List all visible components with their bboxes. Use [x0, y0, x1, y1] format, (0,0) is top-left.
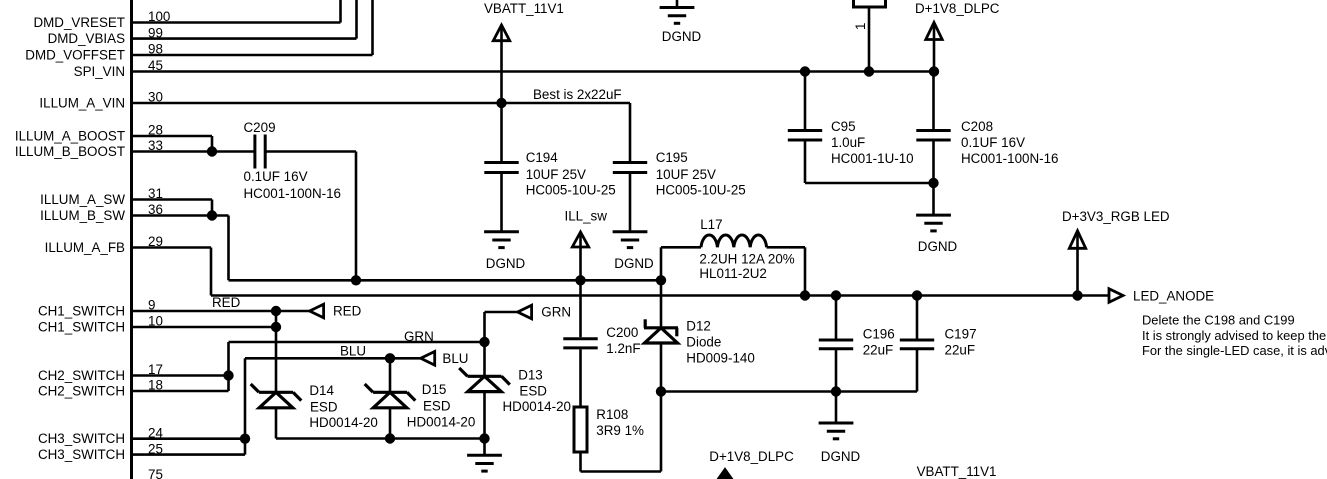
- svg-text:HC001-100N-16: HC001-100N-16: [961, 151, 1059, 166]
- pin 29 ILLUM_A_FB wire: [132, 246, 212, 249]
- svg-text:RED: RED: [333, 304, 362, 319]
- svg-text:C208: C208: [961, 119, 993, 134]
- junction pin17: [224, 371, 233, 380]
- svg-text:HD0014-20: HD0014-20: [503, 399, 571, 414]
- svg-text:10UF 25V: 10UF 25V: [656, 167, 716, 182]
- junction D+1V8_DLPC on SPI_VIN wire: [929, 67, 938, 76]
- capacitor C209: [255, 135, 265, 169]
- junction D13 bottom: [480, 434, 489, 443]
- pin 1 wire: [868, 7, 871, 72]
- wire C195 to ground: [629, 174, 632, 232]
- wire ground stem under rail: [835, 392, 838, 424]
- svg-text:HD0014-20: HD0014-20: [407, 414, 475, 429]
- power D+3V3_RGB LED stem: [1076, 233, 1079, 296]
- wire SW net horizontal: [229, 279, 662, 282]
- port LED_ANODE: [1109, 289, 1123, 303]
- pin 9 CH1_SWITCH wire: [132, 310, 310, 313]
- svg-text:2.2UH 12A 20%: 2.2UH 12A 20%: [699, 252, 794, 267]
- ground DGND top: [660, 8, 695, 24]
- svg-text:18: 18: [148, 378, 163, 393]
- svg-text:HL011-2U2: HL011-2U2: [699, 266, 767, 281]
- wire stem from top to DGND: [676, 0, 679, 8]
- svg-text:ESD: ESD: [310, 399, 338, 414]
- power D+1V8_DLPC stem: [933, 25, 936, 72]
- svg-text:C196: C196: [863, 327, 895, 342]
- svg-text:ESD: ESD: [423, 399, 451, 414]
- wire R108 bottom corner: [579, 452, 582, 472]
- svg-text:D+1V8_DLPC: D+1V8_DLPC: [709, 449, 794, 464]
- wire pin98 up exit: [371, 0, 374, 55]
- wire C208 to bottom rail: [932, 142, 935, 184]
- junction C196 top on LED_ANODE wire: [831, 291, 840, 300]
- junction C209 on SW wire: [351, 276, 360, 285]
- wire to L17 left: [661, 246, 701, 249]
- pin 25 CH3_SWITCH wire: [132, 453, 246, 456]
- svg-text:C194: C194: [526, 150, 559, 165]
- svg-text:C195: C195: [656, 150, 688, 165]
- svg-text:DGND: DGND: [821, 449, 861, 464]
- junction SW pins: [207, 211, 216, 220]
- pin 98 DMD_VOFFSET wire: [132, 54, 373, 57]
- pin 33 ILLUM_B_BOOST wire: [132, 150, 254, 153]
- pin 24 CH3_SWITCH wire: [132, 437, 246, 440]
- wire C196 bottom: [835, 350, 838, 392]
- svg-text:30: 30: [148, 90, 163, 105]
- wire VBATT down to C194: [500, 103, 503, 161]
- power ILL_sw stem: [579, 234, 582, 280]
- svg-text:D13: D13: [518, 367, 543, 382]
- capacitor C95: [788, 131, 822, 141]
- svg-text:17: 17: [148, 362, 163, 377]
- wire pin99 up exit: [355, 0, 358, 39]
- svg-text:D12: D12: [686, 319, 711, 334]
- svg-text:DGND: DGND: [918, 239, 958, 254]
- wire down to C196: [835, 296, 838, 339]
- pin 31 ILLUM_A_SW wire: [132, 198, 213, 201]
- svg-text:DMD_VBIAS: DMD_VBIAS: [48, 31, 125, 46]
- wire C95 to bottom rail: [804, 142, 807, 184]
- pin 45 SPI_VIN wire: [132, 70, 935, 73]
- svg-text:C200: C200: [606, 325, 638, 340]
- wire D15 anode down: [389, 408, 392, 439]
- wire down to C208: [932, 72, 935, 130]
- svg-text:SPI_VIN: SPI_VIN: [74, 64, 125, 79]
- wire GRN horizontal: [229, 341, 485, 344]
- svg-text:BLU: BLU: [340, 344, 366, 359]
- svg-text:R108: R108: [596, 407, 628, 422]
- pin 99 DMD_VBIAS wire: [132, 37, 357, 40]
- junction D12 anode on gnd rail: [656, 387, 665, 396]
- power D+3V3_RGB LED arrow: [1069, 231, 1085, 249]
- svg-text:Delete the C198 and C199: Delete the C198 and C199: [1142, 313, 1295, 328]
- svg-text:C95: C95: [831, 119, 856, 134]
- junction pin10: [271, 322, 280, 331]
- svg-text:Diode: Diode: [686, 334, 721, 349]
- capacitor C197: [900, 340, 934, 349]
- wire D12 cathode from SW junction: [660, 280, 663, 328]
- junction SW wire at L17/D12 column: [656, 276, 665, 285]
- svg-text:For the single-LED case, it is: For the single-LED case, it is advised t…: [1142, 343, 1327, 358]
- wire C208 bottom to ground: [932, 183, 935, 215]
- wire pin29 corner down: [210, 248, 213, 296]
- svg-text:10: 10: [148, 314, 163, 329]
- capacitor C194: [484, 163, 518, 173]
- svg-text:BLU: BLU: [442, 351, 468, 366]
- svg-text:0.1UF 16V: 0.1UF 16V: [961, 135, 1025, 150]
- wire D15 cathode from BLU wire: [389, 358, 392, 392]
- junction boost pins: [207, 147, 216, 156]
- inductor L17: [701, 235, 767, 247]
- junction C95 on SPI_VIN wire: [800, 67, 809, 76]
- pin 30 ILLUM_A_VIN wire: [132, 102, 631, 105]
- wire down to C197: [916, 296, 919, 339]
- junction D15 bottom: [385, 434, 394, 443]
- ground DGND under C196: [819, 423, 854, 439]
- junction L17 output on LED_ANODE wire: [800, 291, 809, 300]
- svg-text:10UF 25V: 10UF 25V: [526, 167, 586, 182]
- svg-text:29: 29: [148, 234, 163, 249]
- svg-text:GRN: GRN: [541, 305, 571, 320]
- ground DGND under C195: [613, 232, 648, 248]
- svg-text:CH2_SWITCH: CH2_SWITCH: [38, 383, 125, 398]
- junction pin24: [240, 434, 249, 443]
- svg-text:25: 25: [148, 441, 163, 456]
- svg-text:D14: D14: [309, 383, 334, 398]
- svg-text:ILLUM_A_SW: ILLUM_A_SW: [40, 192, 125, 207]
- svg-text:36: 36: [148, 202, 163, 217]
- svg-text:HC005-10U-25: HC005-10U-25: [656, 183, 746, 198]
- svg-text:ESD: ESD: [519, 384, 547, 399]
- svg-text:DMD_VOFFSET: DMD_VOFFSET: [25, 47, 125, 62]
- wire L17 down to LED wire: [804, 247, 807, 295]
- svg-text:98: 98: [148, 42, 163, 57]
- svg-text:VBATT_11V1: VBATT_11V1: [917, 464, 997, 479]
- svg-text:ILLUM_B_BOOST: ILLUM_B_BOOST: [15, 144, 125, 159]
- capacitor C196: [819, 340, 853, 349]
- svg-text:45: 45: [148, 58, 163, 73]
- wire GRN port stub: [485, 311, 518, 314]
- pin 100 DMD_VRESET wire: [132, 21, 341, 24]
- wire L17 right: [767, 246, 805, 249]
- svg-text:DGND: DGND: [614, 256, 654, 271]
- wire pin36 corner down to SW net: [227, 216, 230, 281]
- junction BLU wire at D15: [385, 354, 394, 363]
- svg-text:3R9 1%: 3R9 1%: [596, 423, 644, 438]
- junction rail at C196/ground: [831, 387, 840, 396]
- svg-text:HC005-10U-25: HC005-10U-25: [526, 183, 616, 198]
- svg-text:9: 9: [148, 298, 155, 313]
- wire ILL_sw column down to C200: [579, 280, 582, 337]
- svg-text:33: 33: [148, 138, 163, 153]
- svg-text:CH1_SWITCH: CH1_SWITCH: [38, 319, 125, 334]
- wire BLU horizontal: [245, 357, 421, 360]
- wire D12 anode down: [660, 343, 663, 472]
- wire pin31 to pin36 join: [211, 200, 214, 216]
- wire C197 bottom: [916, 350, 919, 392]
- wire D14 anode down: [275, 408, 278, 439]
- svg-text:HD009-140: HD009-140: [686, 350, 754, 365]
- resistor R108: [574, 407, 587, 452]
- pin 17 CH2_SWITCH wire: [132, 374, 229, 377]
- junction C197 top on LED_ANODE wire: [912, 291, 921, 300]
- svg-text:L17: L17: [700, 217, 722, 232]
- wire bottom to D12 column: [581, 470, 662, 473]
- wire BLU to pins 24/25: [244, 358, 247, 454]
- svg-text:C209: C209: [244, 120, 276, 135]
- wire D13 anode down: [483, 392, 486, 439]
- svg-text:100: 100: [148, 9, 170, 24]
- port GRN: [518, 305, 532, 319]
- diode D14 ESD: [251, 384, 302, 408]
- svg-text:D+3V3_RGB LED: D+3V3_RGB LED: [1062, 209, 1170, 224]
- svg-text:0.1UF 16V: 0.1UF 16V: [244, 169, 308, 184]
- svg-text:1.2nF: 1.2nF: [606, 341, 640, 356]
- wire ILLUM_A_VIN corner down to C195: [629, 103, 632, 161]
- junction GRN wire at D13: [480, 337, 489, 346]
- svg-text:DMD_VRESET: DMD_VRESET: [33, 15, 125, 30]
- svg-text:D+1V8_DLPC: D+1V8_DLPC: [915, 1, 1000, 16]
- svg-text:VBATT_11V1: VBATT_11V1: [484, 1, 564, 16]
- svg-text:CH3_SWITCH: CH3_SWITCH: [38, 431, 125, 446]
- svg-text:DGND: DGND: [486, 256, 526, 271]
- wire pin100 up exit: [339, 0, 342, 23]
- ground DGND under C194: [484, 232, 519, 248]
- svg-text:DGND: DGND: [662, 29, 702, 44]
- svg-text:1: 1: [853, 23, 868, 30]
- svg-text:31: 31: [148, 186, 163, 201]
- power D+1V8_DLPC arrow bottom (filled, clipped): [713, 470, 737, 479]
- power VBATT_11V1 stem: [500, 27, 503, 103]
- wire C95-C208 bottom rail: [805, 182, 934, 185]
- wire C194 to ground: [500, 174, 503, 232]
- svg-text:CH3_SWITCH: CH3_SWITCH: [38, 447, 125, 462]
- svg-text:ILLUM_A_VIN: ILLUM_A_VIN: [39, 95, 125, 110]
- diode D12: [644, 319, 678, 343]
- svg-text:LED_ANODE: LED_ANODE: [1133, 288, 1214, 303]
- svg-text:CH2_SWITCH: CH2_SWITCH: [38, 368, 125, 383]
- junction VBATT on ILLUM_A_VIN wire: [497, 98, 506, 107]
- svg-text:ILLUM_A_FB: ILLUM_A_FB: [45, 240, 125, 255]
- svg-text:24: 24: [148, 425, 163, 440]
- wire C200 to R108: [579, 349, 582, 407]
- port RED: [310, 304, 324, 318]
- wire C209 branch down to SW net: [355, 152, 358, 281]
- svg-text:Best is 2x22uF: Best is 2x22uF: [533, 87, 622, 102]
- svg-text:HC001-1U-10: HC001-1U-10: [831, 151, 914, 166]
- capacitor C208: [916, 131, 950, 141]
- wire pin28 to pin33 join: [211, 136, 214, 152]
- diode D13 ESD: [459, 368, 510, 392]
- svg-text:RED: RED: [212, 295, 241, 310]
- svg-text:HD0014-20: HD0014-20: [309, 415, 377, 430]
- junction C208 bottom: [929, 178, 938, 187]
- pin 36 ILLUM_B_SW wire: [132, 214, 229, 217]
- svg-text:C197: C197: [945, 327, 977, 342]
- svg-text:1.0uF: 1.0uF: [831, 135, 865, 150]
- diode D15 ESD: [365, 384, 416, 408]
- wire SW node up to inductor: [660, 247, 663, 281]
- component box top (partial): [854, 0, 886, 7]
- wire GRN to pins 17/18: [227, 342, 230, 391]
- power D+1V8_DLPC arrow: [926, 23, 942, 40]
- port BLU: [421, 352, 435, 366]
- junction ILL_sw on SW wire: [576, 276, 585, 285]
- wire diode bottom rail: [276, 437, 485, 440]
- wire D13 bottom to ground: [483, 439, 486, 456]
- pin 18 CH2_SWITCH wire: [132, 390, 229, 393]
- wire LED_ANODE net horizontal: [211, 294, 1109, 297]
- power VBATT_11V1 arrow: [493, 25, 509, 41]
- svg-text:ILLUM_B_SW: ILLUM_B_SW: [40, 208, 125, 223]
- ground DGND under D13: [467, 455, 502, 471]
- svg-text:ILLUM_A_BOOST: ILLUM_A_BOOST: [15, 128, 125, 143]
- wire down to C95: [804, 72, 807, 130]
- wire anode rail horizontal: [661, 390, 917, 393]
- junction D+3V3 on LED_ANODE wire: [1073, 291, 1082, 300]
- svg-text:It is strongly advised to keep: It is strongly advised to keep the C196 …: [1142, 328, 1327, 343]
- ground DGND under C208: [916, 215, 951, 231]
- svg-text:75: 75: [148, 467, 163, 479]
- wire GRN port corner down: [483, 312, 486, 376]
- IC U? left body edge: [130, 0, 133, 479]
- power ILL_sw arrow: [572, 232, 588, 247]
- pin 28 ILLUM_A_BOOST wire: [132, 135, 213, 138]
- svg-text:HC001-100N-16: HC001-100N-16: [244, 186, 342, 201]
- svg-text:D15: D15: [422, 382, 447, 397]
- svg-text:22uF: 22uF: [863, 343, 894, 358]
- svg-text:22uF: 22uF: [945, 343, 976, 358]
- junction pin1 on SPI_VIN wire: [864, 67, 873, 76]
- wire C209 right to corner: [266, 150, 356, 153]
- svg-text:99: 99: [148, 25, 163, 40]
- junction pin9 RED: [271, 306, 280, 315]
- wire RED column down to D14: [275, 311, 278, 392]
- svg-text:ILL_sw: ILL_sw: [565, 209, 608, 224]
- svg-text:CH1_SWITCH: CH1_SWITCH: [38, 303, 125, 318]
- pin 10 CH1_SWITCH wire: [132, 326, 277, 329]
- capacitor C200: [563, 339, 597, 348]
- capacitor C195: [613, 163, 647, 173]
- svg-text:28: 28: [148, 123, 163, 138]
